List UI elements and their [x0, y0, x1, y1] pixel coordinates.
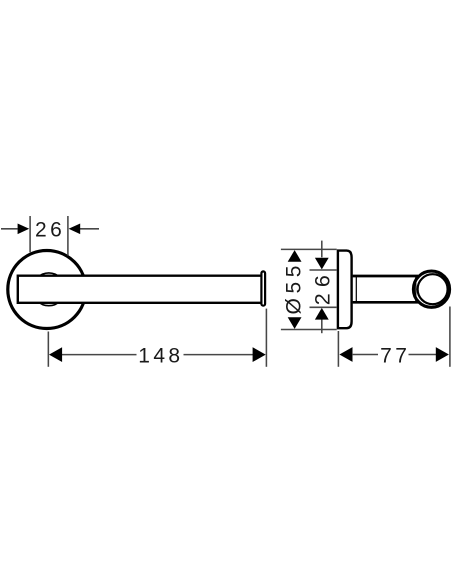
svg-text:148: 148: [138, 345, 183, 368]
svg-text:26: 26: [35, 218, 65, 241]
svg-text:26: 26: [311, 269, 335, 305]
svg-text:77: 77: [380, 345, 410, 368]
svg-text:Ø55: Ø55: [282, 261, 305, 315]
